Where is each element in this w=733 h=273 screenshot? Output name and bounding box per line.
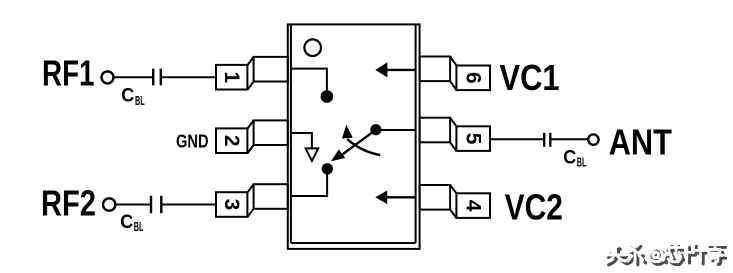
pin 3 <box>216 184 288 217</box>
svg-text:C: C <box>121 85 134 107</box>
capacitor C_BL (ANT) <box>544 133 550 147</box>
wire C2 to pin 3 <box>163 204 217 206</box>
wire pin 2 internal <box>291 133 312 147</box>
svg-text:BL: BL <box>135 94 145 108</box>
IC body U1 <box>288 24 420 249</box>
wire RF2 to C2 <box>116 204 150 206</box>
control arrow pin 6 <box>375 62 415 77</box>
capacitor C_BL (RF1) <box>153 69 161 86</box>
ground symbol <box>306 148 319 161</box>
watermark 头条@芯片哥 <box>606 244 726 265</box>
wire pin 1 internal <box>291 69 327 92</box>
wire pin 3 internal <box>291 169 327 196</box>
pin 5 <box>420 118 490 151</box>
svg-text:C: C <box>120 211 133 233</box>
svg-text:C: C <box>563 146 576 168</box>
pin 1 <box>216 57 288 90</box>
rotation arrow <box>342 125 380 155</box>
label C_BL (ANT) <box>563 146 586 169</box>
svg-text:4: 4 <box>462 200 485 212</box>
label C_BL (RF2) <box>120 211 143 234</box>
wire C3 to ANT terminal <box>551 138 587 140</box>
wire pin 5 to C3 <box>490 138 543 140</box>
svg-text:VC1: VC1 <box>500 57 560 98</box>
svg-text:RF2: RF2 <box>41 183 96 224</box>
wire pin 5 internal <box>381 129 416 131</box>
svg-text:VC2: VC2 <box>505 186 563 227</box>
svg-text:1: 1 <box>220 71 243 83</box>
terminal RF2 <box>103 198 115 210</box>
svg-text:2: 2 <box>220 135 243 147</box>
wire C1 to pin 1 <box>162 76 216 78</box>
pin 4 <box>420 185 490 218</box>
svg-text:BL: BL <box>577 156 587 170</box>
pin-1 marker circle <box>304 39 321 56</box>
svg-text:5: 5 <box>462 133 485 145</box>
svg-text:RF1: RF1 <box>42 52 95 93</box>
svg-text:BL: BL <box>134 220 144 234</box>
svg-text:6: 6 <box>462 72 485 84</box>
svg-text:GND: GND <box>176 131 209 151</box>
terminal RF1 <box>102 71 114 83</box>
pin 2 <box>216 120 288 153</box>
svg-text:ANT: ANT <box>609 122 672 163</box>
label C_BL (RF1) <box>121 85 145 108</box>
pin 6 <box>420 57 490 91</box>
node pole <box>370 124 381 135</box>
node RF2 throw <box>322 163 333 174</box>
capacitor C_BL (RF2) <box>151 196 161 213</box>
control arrow pin 4 <box>375 191 415 205</box>
switch arm with arrowhead <box>331 130 376 162</box>
node RF1 throw <box>321 90 334 103</box>
wire RF1 to C1 <box>114 76 153 78</box>
terminal ANT <box>588 134 598 144</box>
svg-text:3: 3 <box>220 199 243 211</box>
